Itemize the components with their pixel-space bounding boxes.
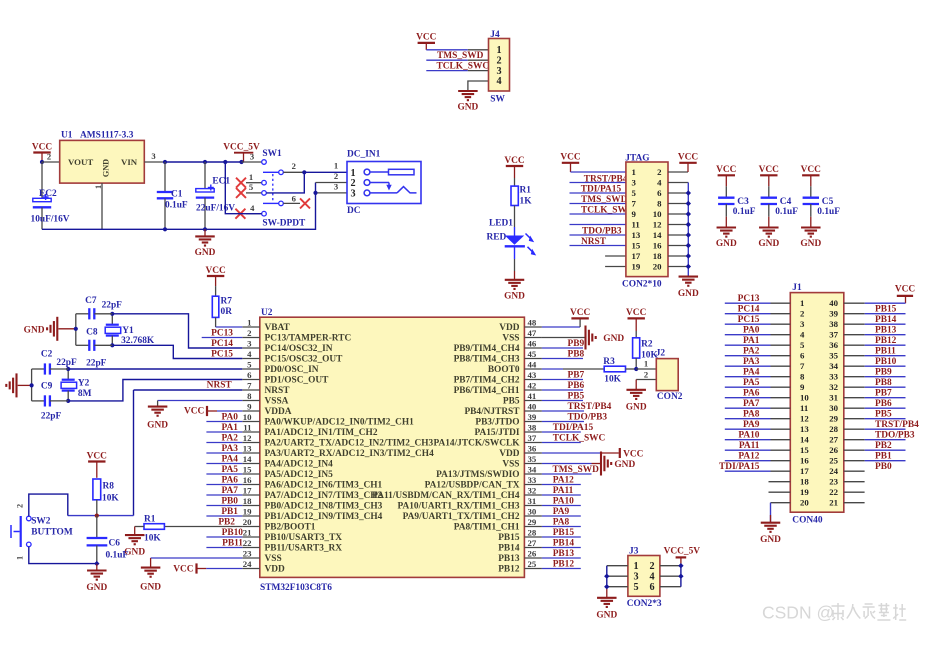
svg-text:22: 22 — [243, 538, 252, 548]
svg-text:PC13: PC13 — [211, 328, 233, 338]
svg-text:39: 39 — [829, 308, 838, 318]
svg-text:PA3: PA3 — [743, 357, 760, 367]
svg-text:3: 3 — [350, 189, 355, 200]
node DC_IN1 pin 3 / ground riser — [313, 191, 317, 195]
net label PA0 / wire J1 pin 4 — [725, 326, 791, 336]
svg-text:CON2*3: CON2*3 — [627, 599, 662, 609]
svg-text:U1: U1 — [61, 131, 73, 141]
ground symbol below power section — [195, 229, 216, 258]
svg-text:23: 23 — [243, 548, 252, 558]
svg-text:7: 7 — [632, 198, 637, 208]
net label PB13 / wire U2 pin 26 — [542, 549, 581, 559]
svg-text:32: 32 — [829, 382, 838, 392]
net label PA3 / wire J1 pin 7 — [725, 357, 791, 367]
svg-text:6: 6 — [657, 188, 662, 198]
net label TDO/PB3 / wire J1 pin 28 — [844, 429, 915, 440]
svg-text:48: 48 — [528, 317, 537, 327]
ground symbol at pin 47 — [586, 326, 625, 350]
svg-text:TRST/PB4: TRST/PB4 — [875, 420, 919, 430]
svg-text:44: 44 — [528, 359, 537, 369]
net label PB6 / wire U2 pin 42 — [542, 381, 585, 391]
wire JTAG pin 1 to VCC — [571, 171, 626, 173]
svg-text:PA13/JTMS/SWDIO: PA13/JTMS/SWDIO — [436, 470, 519, 480]
ground rail wire along bottom of power section — [42, 183, 316, 230]
svg-text:VCC_5V: VCC_5V — [664, 547, 701, 557]
svg-text:2: 2 — [649, 561, 654, 572]
net label TDI/PA15 / wire U2 pin 38 — [542, 423, 594, 433]
svg-text:VCC: VCC — [570, 308, 591, 318]
svg-text:9: 9 — [800, 382, 805, 392]
net label PB12 / wire J1 pin 37 — [844, 335, 906, 346]
wire U2 VDD pin 36 to VCC — [542, 452, 619, 454]
power net VCC symbol above C4 — [759, 165, 780, 186]
net label PB14 / wire U2 pin 27 — [542, 539, 581, 549]
svg-text:VCC: VCC — [184, 407, 205, 417]
resistor R1 10K (BOOT1 pulldown) — [135, 514, 165, 543]
svg-text:PA4: PA4 — [743, 368, 760, 378]
capacitor C2 22pF — [32, 349, 77, 374]
svg-text:VDD: VDD — [499, 323, 519, 333]
svg-text:RED: RED — [487, 232, 507, 242]
wire Y2 left rail — [31, 369, 33, 401]
svg-text:VCC: VCC — [560, 153, 581, 163]
connector DC_IN1 DC power jack — [334, 150, 421, 216]
net label PA9 / wire J1 pin 13 — [725, 420, 791, 430]
net label TMS_SWD / wire JTAG pin 7 — [570, 195, 628, 205]
svg-text:32.768K: 32.768K — [121, 336, 155, 346]
ground symbol left of Y1 — [24, 317, 76, 341]
net label PA8 / wire U2 pin 29 — [542, 518, 581, 528]
svg-text:PB13: PB13 — [875, 326, 897, 336]
svg-text:GND: GND — [800, 239, 821, 249]
net label PA8 / wire J1 pin 12 — [725, 410, 791, 420]
svg-text:8: 8 — [657, 198, 662, 208]
svg-text:24: 24 — [829, 466, 838, 476]
svg-text:PA10/UART1_RX/TIM1_CH3: PA10/UART1_RX/TIM1_CH3 — [397, 501, 519, 511]
svg-text:3: 3 — [632, 177, 637, 187]
net label PB0 / wire U2 pin 18 — [206, 497, 242, 507]
net label TCLK_SWC / wire JTAG pin 9 — [570, 205, 634, 215]
svg-text:5: 5 — [247, 359, 252, 369]
svg-text:PB10/USART3_TX: PB10/USART3_TX — [265, 533, 343, 543]
svg-text:PB6: PB6 — [875, 399, 892, 409]
wire U2 VSS pin 23 to ground — [151, 558, 243, 568]
svg-text:6: 6 — [247, 370, 252, 380]
wire NRST vertical to reset circuit — [133, 390, 135, 516]
power net VCC symbol at U2 VDDA pin 9 — [184, 406, 242, 417]
svg-text:PB9/TIM4_CH4: PB9/TIM4_CH4 — [454, 344, 520, 354]
svg-text:PA6/ADC12_IN6/TIM3_CH1: PA6/ADC12_IN6/TIM3_CH1 — [265, 480, 383, 490]
net label PA0 / wire U2 pin 10 — [206, 413, 242, 423]
net label PA10 / wire J1 pin 14 — [725, 431, 791, 441]
svg-text:34: 34 — [528, 464, 537, 474]
ground symbol below pin 23 — [140, 568, 161, 593]
net label PA6 / wire U2 pin 16 — [206, 476, 242, 486]
svg-text:38: 38 — [528, 422, 537, 432]
svg-text:PB15: PB15 — [498, 533, 520, 543]
svg-text:VDDA: VDDA — [265, 407, 292, 417]
net label PC13 / wire J1 pin 1 — [725, 294, 791, 304]
net label PB1 / wire J1 pin 26 — [844, 450, 906, 461]
svg-text:17: 17 — [800, 466, 809, 476]
net label TMS_SWD / wire U2 pin 34 — [542, 465, 599, 475]
svg-text:LED1: LED1 — [489, 219, 513, 229]
node reset junction — [95, 514, 99, 518]
svg-text:2: 2 — [247, 328, 252, 338]
svg-text:3: 3 — [151, 151, 155, 161]
svg-text:2: 2 — [644, 369, 648, 379]
svg-text:41: 41 — [528, 391, 537, 401]
capacitor C6 0.1uF — [87, 516, 129, 564]
capacitor C3 0.1uF — [718, 186, 756, 227]
svg-text:33: 33 — [528, 475, 537, 485]
svg-text:0.1uF: 0.1uF — [106, 551, 129, 561]
svg-text:GND: GND — [716, 239, 737, 249]
svg-text:VOUT: VOUT — [68, 157, 93, 167]
svg-text:PB5: PB5 — [875, 410, 892, 420]
wire SW1 pin 4 to input rail — [225, 162, 261, 214]
svg-text:DC: DC — [347, 206, 361, 216]
capacitor EC2 10uF/16V — [31, 162, 70, 229]
svg-text:R3: R3 — [603, 357, 615, 367]
net label TDO/PB3 / wire U2 pin 39 — [542, 413, 607, 423]
no-ERC marker on SW1 pin 4 — [235, 209, 245, 219]
wire J1 pin 23 stub — [844, 481, 865, 483]
svg-text:GND: GND — [596, 610, 617, 620]
svg-text:PC14/OSC32_IN: PC14/OSC32_IN — [265, 344, 333, 354]
svg-text:21: 21 — [243, 527, 252, 537]
svg-text:PA2/UART2_TX/ADC12_IN2/TIM2_CH: PA2/UART2_TX/ADC12_IN2/TIM2_CH3 — [265, 438, 434, 448]
wire DC_IN1 pin 2 to ground riser — [316, 182, 348, 184]
capacitor C1 0.1uF — [157, 162, 188, 229]
power net VCC symbol at U2 VDD pin 24 — [173, 563, 242, 574]
svg-text:27: 27 — [829, 434, 838, 444]
svg-text:2: 2 — [47, 152, 51, 162]
no-ERC marker on SW1 pin 1 — [236, 178, 246, 188]
svg-text:7: 7 — [800, 361, 805, 371]
svg-text:32: 32 — [528, 485, 537, 495]
net label PB7 / wire U2 pin 43 — [542, 371, 585, 381]
wire SW2 pin 2 to reset node — [29, 494, 68, 516]
svg-text:GND: GND — [102, 159, 111, 177]
svg-text:PA11: PA11 — [739, 441, 760, 451]
net label PC14 / wire J1 pin 2 — [725, 305, 791, 315]
svg-text:14: 14 — [243, 454, 252, 464]
net label PA5 / wire U2 pin 15 — [206, 465, 242, 475]
net label PB6 / wire J1 pin 31 — [844, 398, 906, 409]
net label TRST/PB4 / wire U2 pin 40 — [542, 402, 612, 412]
svg-text:22pF: 22pF — [86, 358, 107, 368]
capacitor C8 22pF — [76, 327, 113, 368]
svg-text:0R: 0R — [221, 307, 233, 317]
net label PB13 / wire J1 pin 38 — [844, 324, 906, 335]
svg-text:19: 19 — [632, 261, 641, 271]
svg-text:GND: GND — [457, 103, 478, 113]
net label PB8 / wire J1 pin 33 — [844, 377, 906, 388]
svg-text:24: 24 — [243, 559, 252, 569]
svg-text:10: 10 — [243, 412, 252, 422]
capacitor C7 22pF — [76, 296, 122, 320]
svg-text:PB14: PB14 — [498, 543, 520, 553]
svg-text:PA5: PA5 — [743, 378, 760, 388]
svg-text:22uF/16V: 22uF/16V — [196, 204, 235, 214]
net label PA4 / wire U2 pin 14 — [206, 455, 242, 465]
svg-text:20: 20 — [800, 497, 809, 507]
power net VCC symbol above C5 — [801, 165, 822, 186]
ground symbol below R1 — [124, 535, 145, 558]
svg-text:PA0: PA0 — [743, 326, 760, 336]
connector J3 CON2*3 — [627, 547, 662, 609]
svg-text:PB15: PB15 — [875, 305, 897, 315]
net label PB10 / wire J1 pin 35 — [844, 356, 906, 367]
connector J4 SW — [489, 30, 510, 105]
svg-text:30: 30 — [528, 506, 537, 516]
wire JTAG pin 17 stub — [605, 255, 626, 257]
wire U1 VIN pin 3 to input rail — [144, 151, 165, 162]
svg-text:VIN: VIN — [121, 157, 138, 167]
no-ERC marker on SW1 pin 5 — [236, 188, 246, 198]
net label PA2 / wire U2 pin 12 — [206, 434, 242, 444]
svg-text:25: 25 — [829, 455, 838, 465]
svg-text:0.1uF: 0.1uF — [775, 207, 798, 217]
svg-text:4: 4 — [657, 177, 662, 187]
wire J4 pin 4 to ground — [468, 81, 489, 91]
svg-text:10K: 10K — [102, 493, 119, 503]
svg-text:26: 26 — [528, 548, 537, 558]
svg-text:12: 12 — [800, 413, 809, 423]
power net VCC_5V symbol — [223, 143, 260, 163]
net label PB5 / wire U2 pin 41 — [542, 392, 585, 402]
svg-text:VCC: VCC — [205, 266, 226, 276]
node ground rail at EC1 — [203, 227, 207, 231]
wire JTAG pin 19 stub — [605, 266, 626, 268]
wire U2 VDD pin 48 to VCC — [542, 318, 580, 327]
svg-text:1: 1 — [496, 45, 501, 56]
wire J4 pin 1 to VCC — [426, 49, 488, 51]
wire J3 even pins to VCC_5V — [660, 557, 681, 586]
power net VCC symbol at pin 36 — [620, 448, 644, 459]
svg-text:PC13/TAMPER-RTC: PC13/TAMPER-RTC — [265, 333, 352, 343]
svg-text:15: 15 — [243, 464, 252, 474]
svg-text:PB11/USART3_RX: PB11/USART3_RX — [265, 543, 343, 553]
svg-text:18: 18 — [800, 476, 809, 486]
svg-text:43: 43 — [528, 370, 537, 380]
node input rail at EC1 — [203, 160, 207, 164]
net label PB8 / wire U2 pin 45 — [542, 350, 585, 360]
svg-text:31: 31 — [528, 496, 537, 506]
svg-text:3: 3 — [496, 66, 501, 77]
capacitor C9 22pF — [32, 381, 69, 421]
ground symbol below C4 — [758, 228, 779, 250]
node Y2 top — [66, 367, 70, 371]
wire LED1 to ground — [514, 246, 516, 279]
svg-text:TCLK_SWC: TCLK_SWC — [437, 61, 490, 71]
svg-text:6: 6 — [649, 582, 654, 593]
power net VCC symbol left of JTAG — [560, 153, 581, 172]
svg-text:VCC: VCC — [759, 165, 780, 175]
node J3 pin 5 junction — [604, 584, 609, 589]
capacitor C4 0.1uF — [761, 186, 799, 227]
junction dots on JTAG ground rail — [686, 190, 691, 269]
node Y1 rail ground tee — [74, 327, 78, 331]
svg-text:0.1uF: 0.1uF — [733, 207, 756, 217]
switch SW1 SW-DPDT — [242, 149, 307, 229]
node VCC junction at EC2 — [40, 160, 44, 164]
net label PB5 / wire J1 pin 30 — [844, 408, 906, 419]
svg-text:1: 1 — [334, 161, 338, 171]
svg-text:39: 39 — [528, 412, 537, 422]
svg-text:PA15/JTDI: PA15/JTDI — [475, 428, 520, 438]
svg-text:PB5: PB5 — [503, 396, 520, 406]
net label PB2 / wire R1 to U2 pin 20 — [164, 518, 242, 528]
svg-text:VCC: VCC — [87, 451, 108, 461]
svg-text:Y2: Y2 — [78, 378, 90, 388]
net label TRST/PB4 / wire J1 pin 29 — [844, 419, 919, 430]
svg-text:14: 14 — [653, 230, 662, 240]
svg-text:R1: R1 — [144, 514, 156, 524]
net label PA12 / wire J1 pin 16 — [725, 452, 791, 462]
svg-text:PB12: PB12 — [875, 336, 897, 346]
svg-text:9: 9 — [247, 401, 252, 411]
wire JTAG even pins ground rail — [668, 183, 688, 277]
net label PA10 / wire U2 pin 31 — [542, 497, 581, 507]
svg-text:37: 37 — [528, 433, 537, 443]
wire reset node rail — [68, 515, 134, 517]
resistor R1 1K — [511, 178, 532, 207]
net label PA6 / wire J1 pin 10 — [725, 389, 791, 399]
svg-text:BUTTOM: BUTTOM — [31, 528, 73, 538]
wire J1 pin 21 stub — [844, 502, 865, 504]
svg-text:CSDN @: CSDN @ — [762, 603, 834, 623]
svg-text:PA6: PA6 — [743, 389, 760, 399]
svg-text:SW-DPDT: SW-DPDT — [262, 219, 306, 229]
power net VCC symbol at J1 pin 40 — [895, 285, 916, 304]
net label PB0 / wire J1 pin 25 — [844, 461, 906, 472]
svg-text:28: 28 — [829, 424, 838, 434]
wire DC_IN1 pin 3 to ground rail — [316, 192, 348, 194]
svg-text:PA0/WKUP/ADC12_IN0/TIM2_CH1: PA0/WKUP/ADC12_IN0/TIM2_CH1 — [265, 417, 415, 427]
svg-text:PB8: PB8 — [875, 378, 892, 388]
svg-text:14: 14 — [800, 434, 809, 444]
svg-text:PB14: PB14 — [875, 315, 897, 325]
svg-text:J2: J2 — [656, 349, 666, 359]
node J3 pin 3 junction — [604, 574, 609, 579]
power net VCC symbol above R7 — [205, 266, 226, 286]
svg-text:GND: GND — [626, 402, 647, 412]
wire U2 VSS pin 47 to ground — [542, 337, 586, 339]
ground symbol at pin 35 — [601, 452, 635, 476]
svg-text:PA1: PA1 — [743, 336, 760, 346]
svg-text:17: 17 — [243, 485, 252, 495]
svg-text:NRST: NRST — [265, 386, 291, 396]
svg-text:45: 45 — [528, 349, 537, 359]
wire Y2 to U2 PD1 pin 6 — [68, 380, 242, 401]
svg-text:GND: GND — [614, 460, 635, 470]
net label PB9 / wire U2 pin 46 — [542, 339, 585, 349]
svg-text:VCC_5V: VCC_5V — [223, 143, 260, 153]
wire J1 pin 19 stub — [769, 491, 791, 493]
net label PA12 / wire U2 pin 33 — [542, 476, 581, 486]
wire J3 odd pins to ground — [607, 566, 628, 598]
svg-text:18: 18 — [243, 496, 252, 506]
node input rail at SW1 pin 4 riser — [223, 160, 227, 164]
connector J1 CON40 — [790, 283, 844, 525]
ground symbol below C3 — [716, 228, 737, 250]
svg-text:25: 25 — [528, 559, 537, 569]
svg-text:1: 1 — [16, 556, 25, 560]
node ground rail at C1 — [163, 227, 167, 231]
svg-text:27: 27 — [528, 538, 537, 548]
svg-text:22pF: 22pF — [56, 358, 77, 368]
svg-text:9: 9 — [632, 209, 637, 219]
svg-text:4: 4 — [800, 329, 805, 339]
connector J2 CON2 — [656, 349, 683, 402]
svg-text:VCC: VCC — [801, 165, 822, 175]
power net VCC symbol above C3 — [716, 165, 737, 186]
svg-text:12: 12 — [653, 219, 662, 229]
svg-text:GND: GND — [86, 583, 107, 593]
svg-text:PD1/OSC_OUT: PD1/OSC_OUT — [265, 375, 330, 385]
resistor R8 10K — [93, 479, 119, 516]
svg-text:4: 4 — [649, 571, 654, 582]
net label PB7 / wire J1 pin 32 — [844, 387, 906, 398]
ground symbol below J4 — [457, 91, 478, 113]
svg-text:Y1: Y1 — [122, 326, 134, 336]
svg-text:PA8/TIM1_CH1: PA8/TIM1_CH1 — [454, 522, 520, 532]
net label NRST / wire U2 pin 7 — [134, 381, 243, 391]
svg-text:PA8: PA8 — [743, 410, 760, 420]
svg-text:SW: SW — [490, 95, 505, 105]
svg-text:16: 16 — [800, 455, 809, 465]
net label PB1 / wire U2 pin 19 — [206, 507, 242, 517]
svg-text:PA7: PA7 — [743, 399, 760, 409]
net label NRST / wire JTAG pin 15 — [570, 237, 626, 247]
svg-text:22: 22 — [829, 487, 838, 497]
ground symbol below J2 pin 2 — [626, 390, 647, 413]
svg-text:10K: 10K — [604, 375, 621, 385]
net label PC15 / wire J1 pin 3 — [725, 315, 791, 325]
svg-text:GND: GND — [195, 248, 216, 258]
svg-text:5: 5 — [800, 340, 805, 350]
power net VCC_5V symbol at J3 — [664, 547, 701, 558]
net label PB10 / wire U2 pin 21 — [206, 528, 243, 538]
svg-text:PB13: PB13 — [498, 554, 520, 564]
svg-text:20: 20 — [653, 261, 662, 271]
svg-text:PC15: PC15 — [738, 315, 760, 325]
svg-text:1: 1 — [800, 298, 804, 308]
svg-text:PC14: PC14 — [738, 305, 760, 315]
svg-text:PB1: PB1 — [875, 452, 892, 462]
resistor R7 0R — [212, 286, 232, 317]
svg-text:SW1: SW1 — [262, 149, 282, 159]
wire Y2 to U2 PD0 pin 5 — [68, 368, 242, 370]
svg-text:PB6/TIM4_CH1: PB6/TIM4_CH1 — [454, 386, 520, 396]
svg-text:C8: C8 — [86, 327, 98, 337]
svg-text:GND: GND — [603, 334, 624, 344]
svg-text:GND: GND — [504, 291, 525, 301]
svg-text:VCC: VCC — [678, 153, 699, 163]
svg-text:VCC: VCC — [626, 308, 647, 318]
svg-text:10uF/16V: 10uF/16V — [31, 215, 70, 225]
svg-text:10: 10 — [653, 209, 662, 219]
svg-text:2: 2 — [16, 504, 25, 508]
svg-text:PA9/UART1_TX/TIM1_CH2: PA9/UART1_TX/TIM1_CH2 — [403, 512, 520, 522]
svg-text:PB7: PB7 — [875, 389, 892, 399]
svg-text:PB12: PB12 — [498, 564, 520, 574]
svg-text:VCC: VCC — [416, 33, 437, 43]
wire R7 to U2 VBAT pin 1 — [216, 317, 243, 327]
svg-text:PB10: PB10 — [875, 357, 897, 367]
